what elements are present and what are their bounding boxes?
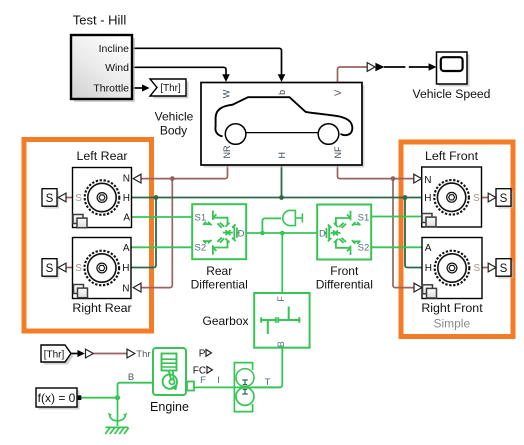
wire From [Thr] to Engine Thr (black then brown): [71, 350, 127, 357]
svg-text:A: A: [425, 243, 432, 254]
svg-text:NF: NF: [333, 146, 343, 158]
svg-text:NR: NR: [222, 145, 232, 158]
port triangles on motor blocks: [58, 174, 496, 292]
wire Front Differential S1 to Left Front A (green): [371, 216, 422, 218]
wire Wind to Vehicle Body W port (black): [133, 67, 230, 82]
svg-text:N: N: [424, 175, 431, 186]
wire Gearbox B down to Torque Converter T (green): [253, 348, 282, 388]
svg-text:S2: S2: [195, 242, 207, 253]
svg-text:S: S: [474, 263, 481, 274]
svg-text:V: V: [333, 90, 343, 96]
svg-text:S1: S1: [195, 212, 207, 223]
wire driveline down to Gearbox F (green): [281, 233, 283, 293]
svg-text:Vehicle Speed: Vehicle Speed: [413, 87, 491, 101]
block Right Rear wheel subsystem: [73, 238, 132, 299]
svg-text:H: H: [122, 263, 129, 274]
Vehicle Body port labels W b V NR H NF: [222, 89, 344, 158]
svg-text:Gearbox: Gearbox: [202, 314, 248, 328]
svg-text:Left Rear: Left Rear: [77, 149, 128, 163]
block Right Front wheel subsystem: [422, 238, 482, 299]
svg-text:I: I: [217, 375, 220, 386]
floating port label P with open arrow: [199, 348, 212, 359]
svg-text:S: S: [473, 193, 480, 204]
wire Solver f(x)=0 to Engine B with ground branch (green): [81, 383, 153, 398]
wire Rear Differential D to Front Differential D (green): [246, 232, 317, 234]
annotation orange box left (rear motors group): [24, 140, 152, 332]
svg-text:Simple: Simple: [433, 316, 470, 330]
svg-text:S2: S2: [358, 243, 370, 254]
block Test - Hill subsystem: [71, 35, 135, 102]
open triangle at Engine Thr port: [127, 349, 135, 358]
wire S sensor stubs (brown): [65, 198, 490, 268]
wire Vehicle Body V to converter (brown physical signal): [338, 67, 369, 83]
svg-text:W: W: [222, 89, 232, 98]
wire Left Rear A to Rear Differential S1 (green): [132, 216, 193, 218]
svg-text:F: F: [200, 375, 206, 386]
open triangle after From tag arrow: [86, 349, 94, 358]
svg-text:A: A: [123, 213, 130, 224]
wire Front Differential S2 to Right Front A (green): [371, 246, 422, 248]
svg-text:S: S: [75, 193, 82, 204]
junction dot rear N (brown): [170, 176, 175, 181]
svg-text:F: F: [276, 296, 286, 302]
svg-text:Vehicle: Vehicle: [155, 110, 194, 124]
block From tag [Thr]: [41, 345, 74, 365]
junction dot solver net (green): [115, 395, 120, 400]
svg-text:A: A: [123, 243, 130, 254]
block Rear Differential: [192, 204, 246, 259]
junction dot front N (brown): [391, 176, 396, 181]
svg-text:Rear: Rear: [206, 264, 232, 278]
wire Incline to Vehicle Body b port (black): [133, 48, 286, 82]
wire H branch to Right Front (dark green): [405, 198, 422, 268]
wire rear N network NR to Left Rear N and Right Rear N (brown): [141, 165, 228, 288]
svg-text:Incline: Incline: [99, 43, 130, 55]
svg-text:f(x) = 0: f(x) = 0: [38, 391, 76, 405]
svg-text:[Thr]: [Thr]: [160, 83, 181, 94]
svg-text:B: B: [128, 372, 134, 383]
junction dots H network (dark green): [154, 195, 408, 200]
svg-text:Right Rear: Right Rear: [72, 301, 131, 315]
svg-text:Right Front: Right Front: [421, 301, 483, 315]
block Engine: [153, 348, 194, 395]
svg-text:B: B: [276, 341, 286, 347]
wire Right Rear A to Rear Differential S2 (green): [131, 246, 192, 248]
svg-text:Differential: Differential: [316, 278, 373, 292]
sensor S block right bottom: [496, 259, 513, 279]
svg-text:N: N: [123, 173, 130, 184]
block Left Rear wheel subsystem: [73, 168, 132, 228]
svg-text:H: H: [424, 193, 431, 204]
sensor S block left top: [42, 189, 59, 209]
block Solver Configuration f(x)=0: [36, 388, 81, 410]
annotation orange box right (front motors group): [401, 142, 513, 337]
wire converter to Vehicle Speed scope (black): [375, 63, 436, 71]
svg-text:D: D: [319, 228, 326, 239]
svg-text:Throttle: Throttle: [93, 83, 129, 95]
sensor S block right top: [496, 189, 513, 209]
car icon inside Vehicle Body: [215, 97, 352, 144]
svg-text:Front: Front: [330, 264, 359, 278]
svg-text:Test - Hill: Test - Hill: [73, 13, 127, 28]
block Gearbox: [254, 293, 309, 348]
connection label plug icon (green): [283, 210, 303, 225]
block Front Differential (mirrored icon): [317, 205, 371, 260]
svg-text:[Thr]: [Thr]: [44, 349, 65, 360]
svg-text:Differential: Differential: [191, 277, 248, 291]
floating port label FC with open arrow: [193, 365, 213, 376]
wire stub to connection label plug (green): [262, 218, 281, 233]
svg-text:Wind: Wind: [105, 62, 129, 74]
wire H branch to Right Rear (dark green): [131, 198, 156, 268]
sensor S block left bottom: [42, 259, 59, 279]
ground mechanical rotational reference: [105, 398, 129, 434]
wire Engine F to Torque Converter I (green): [194, 386, 280, 388]
svg-text:T: T: [265, 377, 271, 388]
wire H network main horizontal (dark green): [132, 197, 422, 199]
svg-text:b: b: [277, 90, 287, 95]
svg-text:Engine: Engine: [150, 400, 189, 414]
junction dots driveline (green): [260, 231, 285, 236]
open triangle at V converter: [367, 63, 375, 72]
svg-text:D: D: [238, 228, 245, 239]
block Vehicle Speed scope: [437, 52, 470, 87]
svg-text:S1: S1: [358, 212, 370, 223]
svg-text:Thr: Thr: [136, 349, 150, 360]
svg-text:N: N: [122, 283, 129, 294]
svg-text:S: S: [75, 263, 82, 274]
wire Throttle to Goto tag (black): [133, 84, 150, 91]
svg-text:Left Front: Left Front: [425, 149, 479, 163]
block Torque Converter: [234, 363, 254, 412]
svg-text:Body: Body: [160, 124, 187, 138]
block Left Front wheel subsystem: [422, 167, 482, 227]
wire H branch up to Vehicle Body H (dark green): [281, 165, 283, 198]
block Goto tag [Thr]: [150, 79, 189, 99]
svg-text:P: P: [199, 348, 206, 359]
svg-text:H: H: [425, 263, 432, 274]
block Vehicle Body: [201, 83, 365, 168]
svg-text:H: H: [123, 193, 130, 204]
wire front N network NF to Left Front N and Right Front N (brown): [338, 165, 414, 288]
svg-text:H: H: [277, 152, 287, 159]
